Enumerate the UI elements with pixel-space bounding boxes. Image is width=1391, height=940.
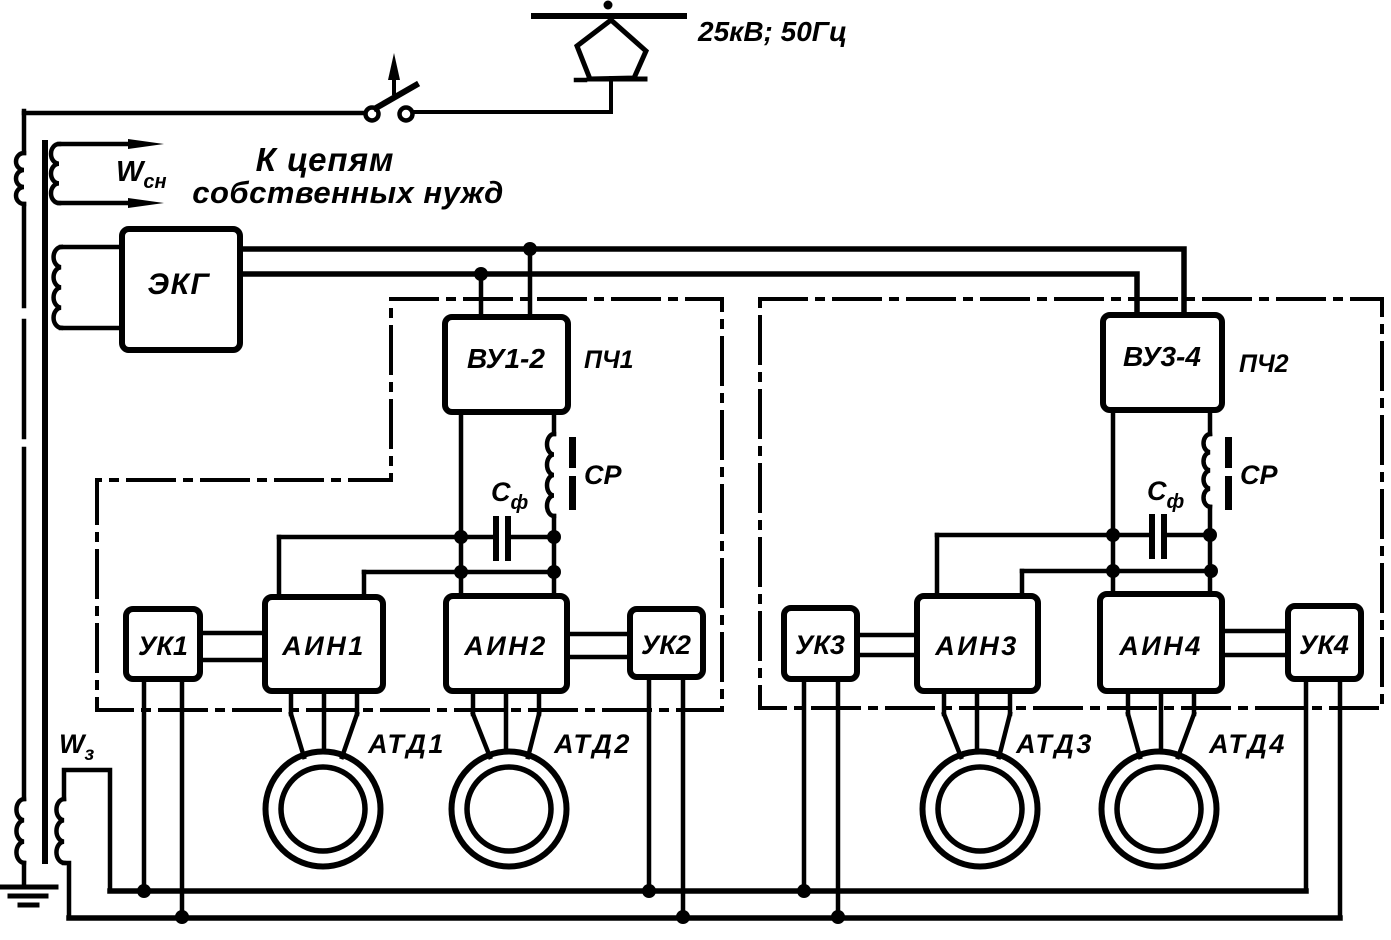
svg-text:АИН3: АИН3 (934, 631, 1018, 661)
svg-text:АТД2: АТД2 (553, 729, 632, 759)
svg-text:АТД1: АТД1 (367, 729, 446, 759)
svg-text:ВУ1-2: ВУ1-2 (467, 343, 545, 374)
svg-text:АИН4: АИН4 (1118, 631, 1202, 661)
svg-text:АТД3: АТД3 (1015, 729, 1094, 759)
svg-text:АТД4: АТД4 (1208, 729, 1287, 759)
svg-text:АИН1: АИН1 (281, 631, 365, 661)
svg-text:СР: СР (1240, 460, 1278, 490)
svg-text:собственных нужд: собственных нужд (192, 175, 503, 210)
svg-text:К цепям: К цепям (256, 141, 395, 178)
svg-text:25кВ; 50Гц: 25кВ; 50Гц (697, 16, 847, 47)
svg-text:УК4: УК4 (1299, 630, 1349, 660)
svg-text:ПЧ1: ПЧ1 (584, 346, 634, 374)
svg-text:УК1: УК1 (138, 631, 188, 661)
svg-text:ВУ3-4: ВУ3-4 (1123, 341, 1201, 372)
svg-text:ЭКГ: ЭКГ (148, 268, 211, 301)
svg-text:УК3: УК3 (795, 630, 845, 660)
svg-text:АИН2: АИН2 (463, 631, 547, 661)
svg-text:СР: СР (584, 460, 622, 490)
svg-text:УК2: УК2 (641, 630, 691, 660)
svg-text:ПЧ2: ПЧ2 (1239, 350, 1289, 378)
